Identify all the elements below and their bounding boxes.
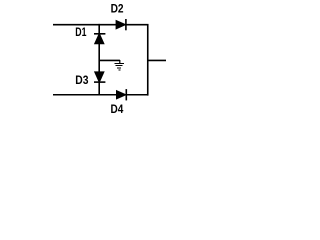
wire top horizontal: [53, 24, 149, 26]
wire bottom horizontal: [53, 94, 149, 96]
svg-text:D3: D3: [75, 75, 88, 87]
ground: [114, 60, 124, 71]
svg-text:D2: D2: [111, 3, 124, 15]
diode D4: [111, 89, 127, 116]
diode D1: [75, 27, 105, 44]
wire left vertical branch: [98, 24, 100, 96]
wire middle branch to ground: [99, 59, 120, 61]
wire output stub: [148, 59, 166, 61]
wire right vertical: [147, 24, 149, 96]
svg-text:D4: D4: [111, 104, 124, 116]
svg-text:D1: D1: [75, 27, 87, 39]
diode D3: [75, 71, 105, 87]
diode D2: [111, 3, 126, 30]
